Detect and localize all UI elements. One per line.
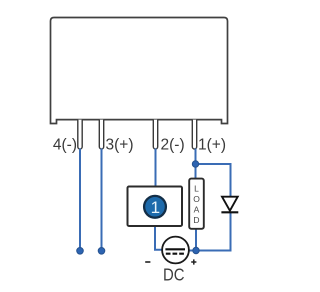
svg-text:3(+): 3(+) [106, 137, 134, 154]
wire pin2 to box 1 [155, 149, 157, 186]
svg-text:1(+): 1(+) [198, 137, 226, 154]
svg-text:4(-): 4(-) [53, 137, 77, 154]
terminal dot pin3 wire [98, 248, 105, 255]
pin 1 [192, 120, 196, 149]
svg-text:O: O [193, 194, 200, 204]
svg-text:DC: DC [163, 265, 185, 285]
junction node B [193, 247, 199, 253]
label plus [191, 259, 196, 264]
wire diode bottom to node B [196, 213, 231, 251]
wire LOAD bottom to node B [195, 229, 197, 251]
wire DC plus to node B [189, 250, 196, 252]
svg-text:L: L [194, 183, 199, 193]
callout box 1 [128, 187, 183, 227]
svg-text:D: D [193, 215, 199, 225]
wire box 1 bottom to DC minus [155, 227, 162, 250]
pin 2 [153, 120, 157, 149]
callout marker 1 [144, 196, 166, 218]
terminal dot pin4 wire [77, 248, 84, 255]
pin 3 [99, 120, 103, 149]
wire pin3 down [101, 149, 103, 249]
LOAD label [193, 183, 200, 225]
svg-text:2(-): 2(-) [161, 137, 185, 154]
wire pin4 down [79, 149, 81, 249]
diode D1 [222, 197, 238, 211]
wire node A to diode top [196, 164, 231, 197]
label minus [145, 261, 150, 263]
svg-text:1: 1 [151, 198, 160, 217]
DC source V1 [162, 237, 189, 264]
junction node A [192, 161, 198, 167]
relay body K1 [51, 18, 228, 124]
svg-text:A: A [194, 204, 200, 214]
wire pin1 to LOAD top [195, 149, 197, 179]
pin 4 [78, 120, 82, 149]
LOAD box [189, 179, 204, 229]
